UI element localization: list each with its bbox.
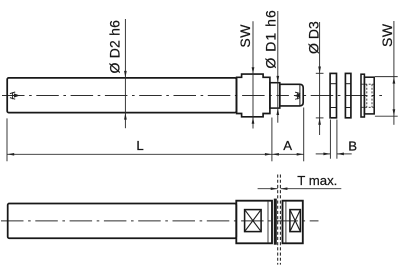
svg-text:A: A [283, 138, 292, 153]
threaded end [280, 84, 303, 106]
centerline top view [2, 95, 382, 97]
svg-text:Ø D2 h6: Ø D2 h6 [106, 20, 122, 74]
nut thread (hidden lines) [362, 84, 375, 107]
svg-text:L: L [136, 138, 143, 153]
svg-text:SW: SW [379, 23, 395, 47]
center-drill symbol right end [289, 94, 294, 97]
travel dashed lines [277, 175, 279, 265]
svg-text:B: B [348, 138, 357, 153]
bearing box 1 (X) [245, 210, 262, 232]
svg-text:T max.: T max. [297, 173, 337, 188]
clamp block 2 [283, 201, 303, 244]
nut body [364, 77, 374, 114]
washer 1 [330, 73, 336, 117]
clamp block 1 [236, 201, 272, 244]
bearing box 2 (X) [290, 210, 301, 232]
spacer disc [274, 199, 277, 245]
shaft body (bottom view) [8, 204, 237, 239]
svg-text:SW: SW [237, 24, 253, 48]
shaft section D1 [270, 83, 280, 108]
thread chamfer line [299, 85, 301, 106]
center-drill symbol left end [10, 92, 20, 99]
washer 2 [345, 73, 351, 117]
nut flange [361, 74, 364, 117]
main shaft body (top view) [7, 78, 236, 113]
centerline bottom view [1, 220, 319, 222]
svg-text:Ø D1 h6: Ø D1 h6 [263, 9, 279, 69]
hex collar SW (side silhouette with chamfer notches) [237, 74, 270, 117]
